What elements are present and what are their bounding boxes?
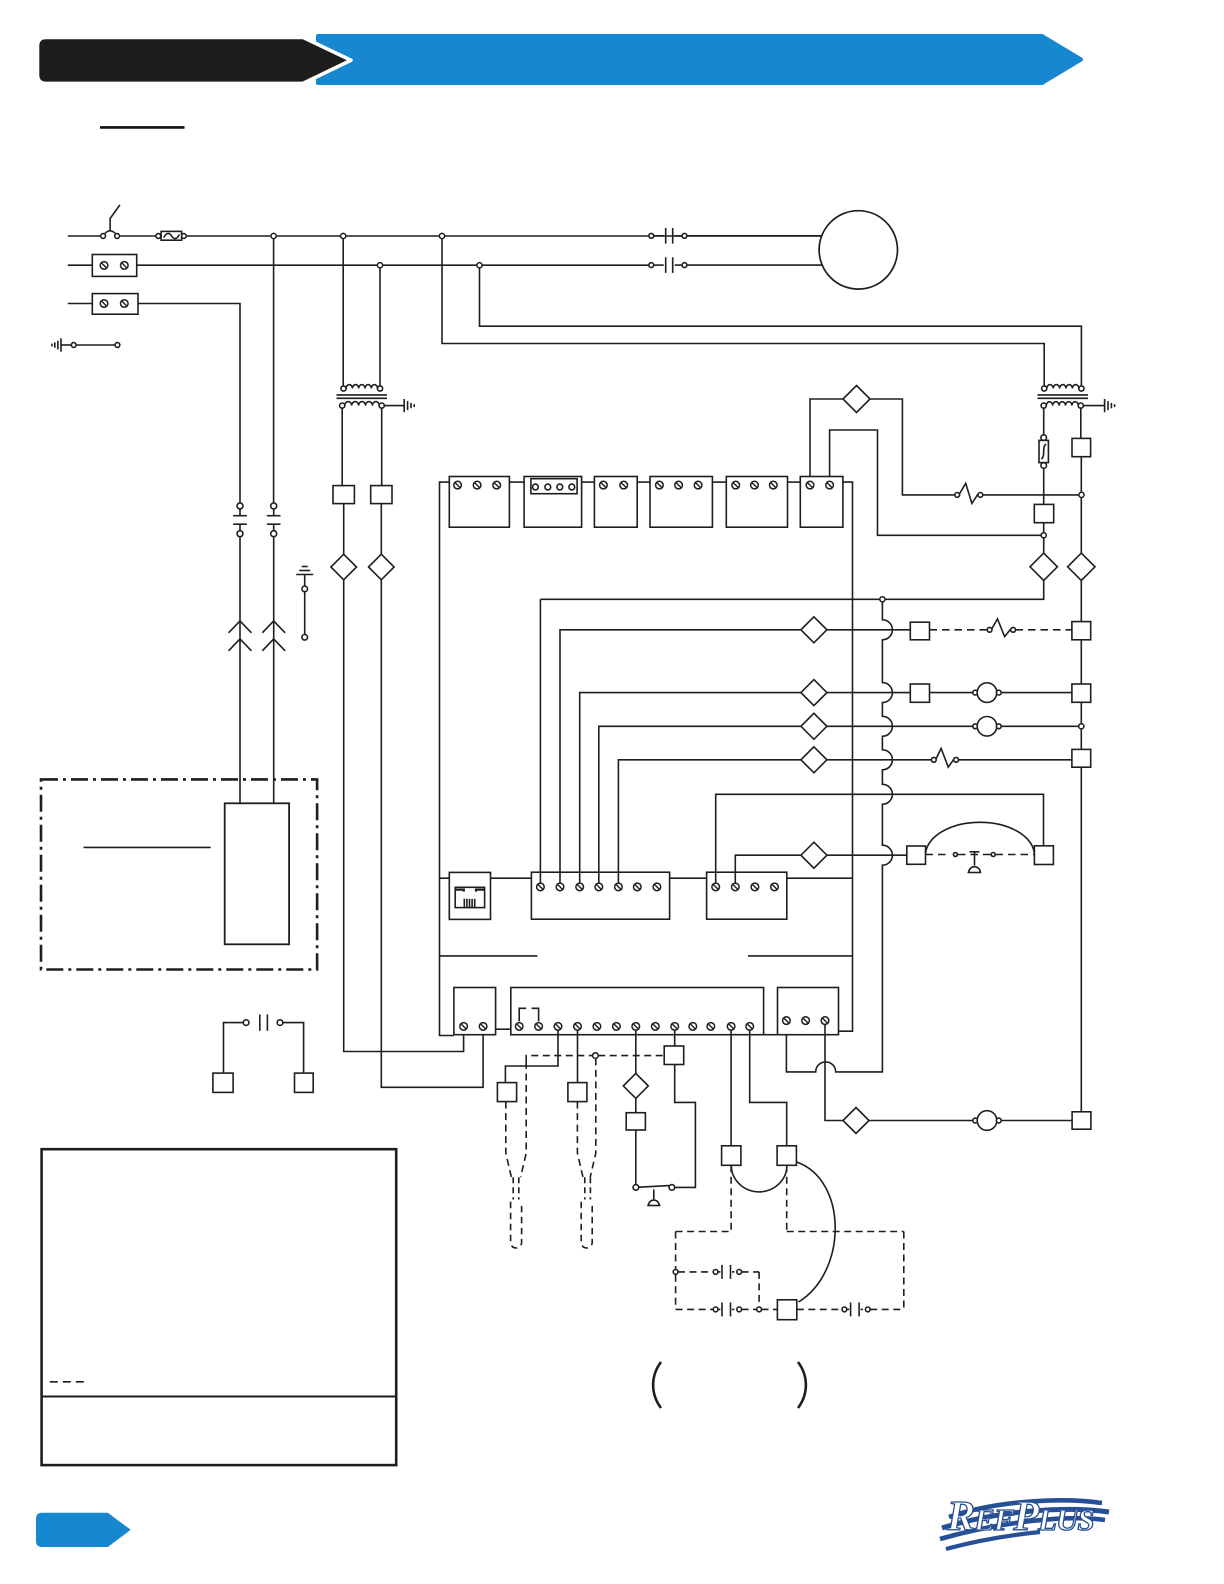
wire L2 drop to T1 primary right bbox=[379, 268, 381, 386]
dashed drop from B8 bbox=[786, 1165, 788, 1231]
board inner bottom line left bbox=[440, 955, 538, 957]
notes box bbox=[42, 1149, 397, 1465]
overload contact OL1 bbox=[955, 493, 960, 498]
dashed sensor link bbox=[526, 1056, 592, 1062]
control device box B4 bbox=[1034, 504, 1053, 522]
wire L3 segment left bbox=[68, 303, 93, 305]
plug symbol P1 (diamond) bbox=[331, 554, 357, 580]
wire L2 segment left bbox=[68, 264, 93, 266]
wire L1 to fuse bbox=[120, 235, 156, 237]
wire T1 secondary right leg bbox=[381, 408, 383, 485]
parenthesis right bbox=[798, 1362, 806, 1408]
relay coil square K4 bbox=[1072, 749, 1091, 767]
wire row5 run bbox=[716, 794, 1044, 883]
wire TB-B pin3 to bottom row bbox=[825, 1024, 843, 1120]
wire TS3 pin3 to sensor box bbox=[505, 1030, 558, 1082]
terminal strip TS3 (bottom) bbox=[511, 988, 764, 1035]
overload contact OL3 bbox=[931, 757, 936, 762]
wire OL3 to K4 bbox=[959, 759, 1072, 761]
footer blue arrow bbox=[36, 1513, 131, 1547]
relay coil square K3-R bbox=[1072, 684, 1091, 702]
chassis stub bars bbox=[302, 566, 308, 568]
fuse F2 bbox=[1041, 435, 1047, 441]
big bypass arc to K7 bbox=[797, 1162, 836, 1302]
junction node L2-A bbox=[377, 263, 382, 268]
sensor box SB2 bbox=[568, 1083, 587, 1102]
transformer T1 primary bbox=[341, 386, 346, 391]
lamp LP1 bbox=[973, 690, 978, 695]
bus wire with hops bbox=[786, 602, 892, 1072]
relay block RL2 bbox=[594, 477, 637, 528]
wire board mid link 1 bbox=[440, 877, 450, 879]
wire T2 secondary right leg bbox=[1080, 408, 1082, 438]
wire row2 to lamp bbox=[930, 692, 973, 694]
wire lamp to K3-R bbox=[1001, 692, 1072, 694]
wire link TB-A to TS3 bbox=[496, 1028, 511, 1030]
overload contact OL2 bbox=[987, 627, 992, 632]
header black arrow tab bbox=[38, 37, 352, 83]
board outline right edge bbox=[839, 482, 853, 1031]
board outline top links bbox=[509, 481, 524, 483]
plug symbol P10 (diamond) bbox=[623, 1073, 648, 1098]
bypass arc below B7-B8 bbox=[731, 1165, 787, 1192]
plug symbol P5 (diamond row1) bbox=[801, 617, 827, 643]
relay block RL3 bbox=[650, 477, 712, 528]
wire diamond right to overload bbox=[870, 399, 955, 495]
plug symbol P9 (diamond row6) bbox=[801, 842, 827, 868]
probe TH2 (dashed) bbox=[577, 1058, 595, 1177]
contact X1 bbox=[243, 1020, 249, 1026]
transformer T2 secondary bbox=[1041, 403, 1046, 408]
board inner bottom line right bbox=[748, 955, 853, 957]
notes box divider bbox=[42, 1396, 397, 1398]
wire board mid link 3 bbox=[670, 877, 707, 879]
terminal block TB-L2 bbox=[92, 255, 136, 277]
device box B6 bbox=[664, 1046, 684, 1065]
dashed link row6 with pressure switch bbox=[926, 854, 951, 856]
comm jack J3 bbox=[449, 872, 490, 919]
wire L1 main run bbox=[186, 235, 822, 237]
plug symbol P11 (diamond bottom row) bbox=[843, 1108, 869, 1134]
header blue banner bbox=[318, 36, 1081, 83]
junction node L2-B bbox=[477, 263, 482, 268]
ground symbol PE left bbox=[60, 338, 62, 351]
relay coil square K2-R bbox=[1072, 622, 1091, 640]
wire board mid link 4 bbox=[787, 877, 853, 879]
connector J2 on wire B bbox=[271, 503, 277, 509]
junction node N2 bbox=[1041, 533, 1046, 538]
transformer T2 primary bbox=[1042, 386, 1047, 391]
wire N2 to plug P3 bbox=[1043, 538, 1045, 553]
parenthesis left bbox=[653, 1362, 661, 1408]
wire control row to board bbox=[540, 598, 879, 600]
wire TS1 pin1 riser bbox=[539, 599, 541, 883]
ground symbol T1 secondary bbox=[384, 405, 403, 407]
contact K1 pole on L1 bbox=[649, 233, 654, 238]
terminal block TB-A (bottom left) bbox=[454, 988, 496, 1035]
junction node N1 bbox=[1079, 492, 1084, 497]
diamond K-coil feed bbox=[843, 386, 870, 413]
control device box B2 bbox=[371, 486, 392, 504]
sensor box SB1 bbox=[497, 1083, 516, 1102]
wire L3 run to compressor drop bbox=[138, 304, 240, 503]
junction node N3 bbox=[880, 597, 885, 602]
remote contact row2 right bbox=[797, 1308, 842, 1310]
wire L1 drop to T1 primary left bbox=[342, 239, 344, 386]
junction node L1-C bbox=[439, 233, 444, 238]
wire OL1 to node bbox=[983, 494, 1079, 496]
relay coil square K6 (row6) bbox=[907, 846, 926, 864]
device box B5 bbox=[635, 1098, 637, 1112]
enclosure label underline bbox=[84, 846, 211, 848]
plug symbol P2 (diamond) bbox=[369, 554, 395, 580]
relay block RL1 bbox=[449, 477, 509, 528]
wire heater contact left bbox=[224, 1023, 244, 1074]
wire B6 to PS1 right bbox=[675, 1065, 696, 1188]
dashed link row1 bbox=[930, 629, 988, 631]
RefPlus logo bbox=[940, 1494, 1109, 1549]
wire inner U to block6 pin2 bbox=[830, 430, 1042, 535]
remote contact row2 bbox=[676, 1308, 714, 1310]
wire fuse to node bbox=[1043, 468, 1045, 535]
relay block RL5 bbox=[800, 477, 843, 528]
plug symbol P7 (diamond row3) bbox=[801, 713, 827, 739]
wire L1 drop to T2 primary left bbox=[442, 239, 1044, 386]
wire L2 to motor bbox=[687, 264, 822, 266]
contact K1 pole on L2 bbox=[649, 263, 654, 268]
wire L1 to motor bbox=[687, 235, 822, 237]
device box B10 bbox=[295, 1073, 314, 1092]
bypass arc row6 bbox=[926, 822, 1035, 854]
terminal strip TS2 bbox=[707, 872, 787, 919]
pressure switch PS1 bbox=[633, 1185, 639, 1191]
condensing unit enclosure (dash-dot) bbox=[41, 779, 317, 969]
chassis stub wire bbox=[304, 575, 306, 587]
wire TS3 pin7 down bbox=[635, 1030, 637, 1073]
control device box B3 bbox=[1072, 438, 1091, 456]
wire lamp2 to column bbox=[1001, 725, 1078, 727]
wire lamp3 to column square bbox=[1001, 1120, 1072, 1122]
device box B7 bbox=[722, 1146, 741, 1166]
remote contact row1 bbox=[673, 1270, 678, 1275]
relay block RL4 bbox=[726, 477, 787, 528]
plug chevrons wire B bbox=[262, 621, 285, 633]
wire compressor lead A bbox=[239, 537, 241, 804]
device box B9 bbox=[213, 1073, 233, 1092]
lamp LP3 bbox=[973, 1118, 978, 1123]
wire T1 secondary left leg bbox=[341, 408, 343, 485]
wire row2 run bbox=[580, 693, 801, 884]
wire TS3 pin9 down bbox=[674, 1030, 676, 1046]
wire sensor run B bbox=[381, 580, 483, 1088]
control device box B1 bbox=[333, 486, 354, 504]
wire L2 drop to T2 primary right bbox=[480, 268, 1082, 386]
board outline left edge bbox=[440, 482, 454, 1035]
relay coil square K3-L bbox=[910, 684, 929, 702]
transformer T1 core bbox=[337, 394, 388, 396]
plug symbol P3 (diamond) bbox=[1030, 553, 1057, 580]
wire to plug P1 bbox=[343, 504, 345, 555]
plug symbol P6 (diamond row2) bbox=[801, 680, 827, 706]
wire compressor lead B bbox=[273, 537, 275, 804]
dashed remote box outline bbox=[676, 1231, 732, 1233]
title underline bbox=[100, 126, 185, 129]
junction node L1-A bbox=[271, 233, 276, 238]
wire board mid link 2 bbox=[491, 877, 532, 879]
wire TS3 pin12 down bbox=[730, 1030, 732, 1146]
ground symbol T2 secondary bbox=[1083, 405, 1104, 407]
wire row6 run bbox=[735, 855, 801, 883]
motor M1 bbox=[819, 211, 897, 289]
dashed drop from B7 bbox=[730, 1165, 732, 1231]
wire diamond left to block6 pin1 bbox=[810, 399, 843, 481]
right column vertical bbox=[1080, 581, 1082, 622]
plug symbol P8 (diamond row4) bbox=[801, 747, 827, 773]
wire B3 down right column bbox=[1080, 457, 1082, 553]
terminal strip TS1 bbox=[531, 872, 669, 919]
wire L2 main run bbox=[137, 264, 649, 266]
compressor terminal box bbox=[225, 803, 289, 944]
wire link TS3 to TB-B bbox=[764, 1034, 778, 1036]
junction node L1-B bbox=[341, 233, 346, 238]
jumper marks above TS3 pins 1-2 bbox=[519, 1008, 526, 1021]
transformer T1 secondary bbox=[340, 403, 345, 408]
wire compressor feed A drop bbox=[273, 239, 275, 503]
wire T2 secondary left leg bbox=[1043, 408, 1045, 435]
wire row4 run bbox=[618, 760, 801, 883]
transformer T2 core bbox=[1038, 394, 1089, 396]
disconnect switch S1 on L1 bbox=[105, 231, 115, 234]
probe TH1 (dashed) bbox=[506, 1062, 526, 1177]
plug symbol P4 (diamond) bbox=[1068, 553, 1095, 580]
fuse F1 bbox=[156, 234, 161, 239]
junction node N4 bbox=[1079, 724, 1084, 729]
wire to plug P2 bbox=[380, 504, 382, 555]
wire P3 to control row bbox=[882, 581, 1043, 600]
device box B8 bbox=[777, 1146, 796, 1166]
connector block CN1 bbox=[524, 477, 582, 528]
relay coil square K2-L bbox=[910, 622, 929, 640]
wire TS3 pin4 to sensor box bbox=[577, 1030, 579, 1082]
wire P11 to lamp3 bbox=[869, 1120, 973, 1122]
terminal block TB-B (bottom right) bbox=[778, 988, 839, 1035]
wire row1 run bbox=[560, 630, 801, 883]
wire B5 to pressure switch bbox=[635, 1130, 637, 1185]
wire TS3 pin13 down bbox=[750, 1030, 787, 1146]
terminal block TB-L3 bbox=[92, 294, 138, 315]
lamp LP2 bbox=[973, 724, 978, 729]
connector J1 on wire A bbox=[237, 503, 243, 509]
wire ground stub bbox=[76, 344, 115, 346]
wire heater contact right bbox=[283, 1023, 304, 1074]
relay coil square K7 bbox=[777, 1300, 796, 1320]
relay coil square K8 (bottom of column) bbox=[1072, 1112, 1091, 1129]
wire row3 run bbox=[599, 726, 801, 883]
wire sensor run A bbox=[344, 580, 464, 1052]
plug chevrons wire A bbox=[229, 621, 252, 633]
wire L1 segment left bbox=[68, 235, 101, 237]
relay coil square K5 (row5) bbox=[1034, 846, 1053, 865]
notes legend dashed sample bbox=[50, 1381, 89, 1383]
